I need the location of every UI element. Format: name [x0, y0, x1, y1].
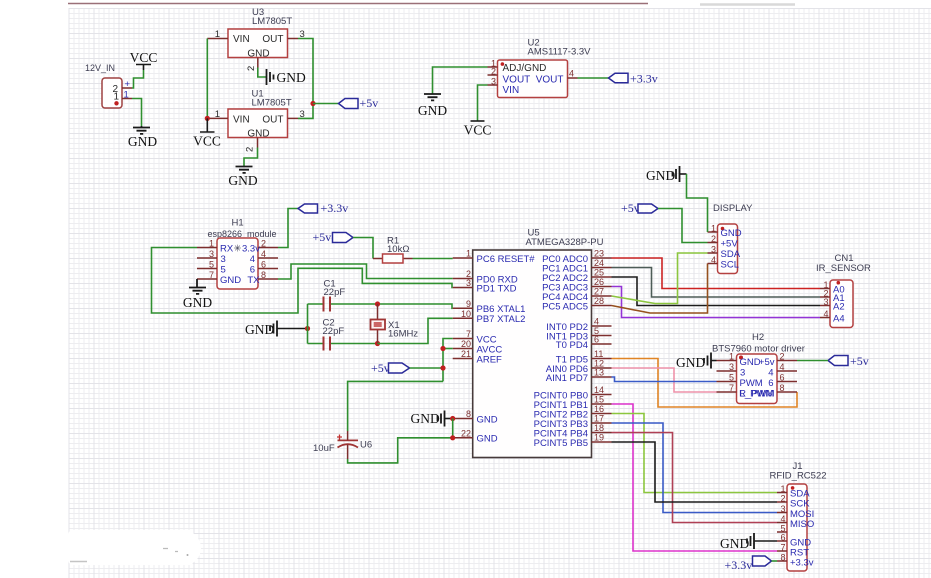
J1 pin 1 SDA [777, 484, 810, 499]
U5 pin 25 PC2 ADC2 [542, 268, 611, 284]
svg-text:+5v: +5v [621, 201, 640, 215]
DISPLAY pin 1 GND [708, 224, 742, 239]
svg-text:GND: GND [220, 275, 241, 286]
wire U5 pin23 to CN1 A0 [612, 258, 821, 289]
net flag +5v (DISPLAY) [621, 201, 658, 215]
svg-text:TX: TX [247, 275, 260, 286]
U5 pin 19 PCINT5 PB5 [534, 433, 612, 449]
svg-text:SCK: SCK [790, 498, 810, 509]
wire U5 pin25 to CN1 A2 [612, 277, 821, 306]
net flag +3.3v (H1) [298, 201, 348, 215]
junction +5v flag node [440, 365, 445, 370]
svg-text:4: 4 [780, 514, 785, 524]
U5 pin 27 PC4 ADC4 [542, 287, 611, 303]
wire U5 pin12 to H2 pin7 LPWM [612, 368, 717, 392]
svg-text:6: 6 [261, 260, 266, 270]
ground (DISPLAY) [646, 166, 680, 183]
wire U5 pin11 to H2 pin8 RPWM [612, 359, 798, 408]
svg-text:8: 8 [780, 383, 785, 393]
svg-text:4: 4 [711, 255, 716, 265]
ground (U3) [267, 69, 306, 85]
svg-text:2: 2 [711, 234, 716, 244]
svg-text:OUT: OUT [262, 34, 283, 45]
svg-text:LM7805T: LM7805T [252, 98, 292, 109]
white patch bottom left [69, 530, 202, 565]
svg-text:PWM: PWM [740, 378, 763, 389]
wire power rail to capacitor U6 [348, 381, 443, 431]
U1 pin 3 [288, 109, 305, 120]
U5 pin 6 T0 PD4 [556, 335, 612, 351]
U5 pin 2 PD0 RXD [453, 269, 518, 285]
svg-text:8: 8 [780, 553, 785, 563]
wire +3.3v to J1 pin8 [772, 560, 778, 562]
svg-text:PD1 TXD: PD1 TXD [477, 283, 517, 294]
U5 pin 24 PC1 ADC1 [542, 258, 611, 274]
svg-text:1: 1 [209, 239, 214, 249]
U5 pin 1 PC6 RESET# [453, 249, 536, 265]
CN1 pin 2 A1 [820, 289, 845, 304]
U3 pin 3 [288, 29, 305, 40]
U5 pin 13 AIN1 PD7 [546, 368, 612, 384]
svg-text:13: 13 [594, 368, 604, 378]
module H2 BTS7960 motor driver [712, 332, 805, 404]
H2 pin 2 +5v [759, 352, 797, 368]
ground (H2) [676, 353, 711, 371]
wire C1 to U5 pin9 XTAL1 [378, 304, 453, 308]
svg-text:+5V: +5V [721, 238, 739, 249]
svg-text:16: 16 [594, 404, 604, 414]
svg-text:3: 3 [740, 367, 745, 378]
wire U5 pin28 to DISPLAY SCL [612, 264, 708, 314]
svg-text:GND: GND [721, 228, 742, 239]
svg-text:9: 9 [466, 299, 471, 309]
U2 pin 2 [488, 67, 498, 77]
U5 pin 12 AIN0 PD6 [546, 359, 612, 375]
12V_IN pin 2 [112, 79, 132, 95]
svg-text:H1: H1 [232, 218, 244, 229]
svg-text:A4: A4 [833, 313, 845, 324]
svg-text:3: 3 [729, 362, 734, 372]
U5 pin 16 PCINT2 PB2 [534, 404, 612, 420]
U5 pin 5 INT1 PD3 [546, 326, 611, 342]
svg-text:ADJ/GND: ADJ/GND [503, 63, 547, 74]
J1 pin 4 MISO [777, 514, 814, 530]
U5 pin 23 PC0 ADC0 [542, 249, 611, 265]
svg-text:4: 4 [261, 249, 266, 259]
svg-text:AIN1 PD7: AIN1 PD7 [546, 373, 588, 384]
ground (12V input) [128, 126, 157, 149]
capacitor U6 10uF [313, 431, 372, 459]
wire U2 pin1 to ground [433, 67, 488, 94]
svg-text:20: 20 [461, 339, 471, 349]
U5 pin 18 PCINT4 PB4 [534, 423, 612, 439]
svg-text:17: 17 [594, 414, 604, 424]
wire H1 pin1 RX to U5 pin3 TXD [152, 248, 453, 314]
H1 pin 8 [247, 270, 278, 286]
svg-text:GND: GND [228, 173, 257, 188]
svg-text:19: 19 [594, 433, 604, 443]
H2 pin 5 PWM [717, 373, 763, 389]
svg-text:25: 25 [594, 268, 604, 278]
U5 pin 17 PCINT3 PB3 [534, 414, 612, 430]
H1 pin 7 [197, 270, 241, 286]
svg-text:GND: GND [676, 355, 705, 370]
U5 pin 4 INT0 PD2 [546, 317, 611, 333]
wire H2 pin2 to +5v [797, 360, 828, 362]
svg-text:2: 2 [245, 147, 256, 152]
svg-text:PB7 XTAL2: PB7 XTAL2 [477, 314, 526, 325]
U5 pin 22 GND [453, 428, 498, 444]
wire H1 pin2 to +3.3v flag [278, 209, 298, 248]
U1 pin 1 [207, 109, 228, 120]
U5 pin 7 VCC [453, 329, 497, 345]
svg-text:21: 21 [461, 349, 471, 359]
svg-text:+5v: +5v [313, 230, 332, 244]
svg-text:2: 2 [491, 67, 496, 77]
U5 pin 9 PB6 XTAL1 [453, 299, 526, 315]
svg-text:1: 1 [780, 484, 785, 494]
capacitor C1 22pF [308, 279, 378, 312]
svg-text:3: 3 [823, 297, 828, 307]
connector CN1 IR_SENSOR [816, 253, 871, 328]
svg-text:15: 15 [594, 395, 604, 405]
svg-text:+5v: +5v [850, 354, 869, 368]
svg-text:RFID_RC522: RFID_RC522 [770, 471, 827, 482]
svg-text:1: 1 [124, 90, 129, 101]
svg-text:GND: GND [128, 134, 157, 149]
wire cap rail [307, 304, 309, 344]
svg-text:✳: ✳ [234, 244, 242, 255]
svg-text:23: 23 [594, 249, 604, 259]
svg-text:6: 6 [780, 373, 785, 383]
wire U5 pin17 to J1 MOSI [612, 423, 778, 513]
svg-text:5: 5 [221, 265, 226, 276]
wire junction to +5v flag [313, 103, 339, 105]
wire U5 pin16 to J1 SDA [612, 414, 778, 493]
svg-text:OUT: OUT [262, 115, 283, 126]
junction +5v node [310, 101, 315, 106]
wire U5 pin26 to CN1 A4 [612, 287, 821, 318]
H2 pin 3 [717, 362, 746, 378]
svg-text:7: 7 [466, 329, 471, 339]
svg-text:+5v: +5v [759, 357, 775, 368]
wire +5v flag to power rail [410, 367, 444, 369]
junction GND pin8 [450, 416, 455, 421]
svg-text:12V_IN: 12V_IN [85, 63, 115, 73]
U5 pin 3 PD1 TXD [453, 278, 517, 294]
resistor R1 10k [373, 236, 413, 264]
wire U5 pin27 to DISPLAY SDA [612, 253, 708, 304]
svg-text:SCL: SCL [721, 259, 739, 270]
svg-text:6: 6 [780, 533, 785, 543]
svg-text:VIN: VIN [233, 34, 250, 45]
net flag +5v (U1 output) [339, 96, 379, 110]
svg-text:GND: GND [477, 414, 498, 425]
U2 pin 4 [568, 69, 578, 79]
svg-text:AREF: AREF [477, 354, 503, 365]
junction GND pin22 [450, 435, 455, 440]
svg-text:1: 1 [729, 352, 734, 362]
svg-text:4: 4 [768, 367, 773, 378]
net flag +5v (MCU power) [371, 361, 410, 375]
svg-text:R_PWM: R_PWM [739, 388, 774, 399]
svg-text:3: 3 [466, 278, 471, 288]
regulator U1 LM7805T [228, 89, 292, 140]
regulator U3 LM7805T [228, 7, 292, 60]
wire U2 pin3 to VCC [478, 85, 488, 121]
J1 pin 3 MOSI [777, 504, 814, 520]
crystal X1 16MHz [371, 304, 419, 344]
H2 pin 8 R_PWM [739, 383, 797, 399]
wire 12V_IN pin1 to GND [132, 99, 142, 127]
svg-text:4: 4 [823, 309, 828, 319]
H2 pin 7 L_PWM [717, 383, 774, 399]
svg-text:GND: GND [418, 103, 447, 118]
svg-text:4: 4 [594, 317, 599, 327]
DISPLAY pin 2 +5V [708, 234, 739, 249]
H1 pin 5 [197, 260, 226, 276]
U5 pin 26 PC3 ADC3 [542, 277, 611, 293]
J1 pin 8 +3.3v [777, 553, 814, 569]
H1 pin 1 [197, 239, 234, 255]
svg-text:22pF: 22pF [324, 287, 346, 298]
wire ground to U5 pin8 [445, 418, 453, 420]
H2 pin 1 GND [717, 352, 761, 368]
wire VCC to 12V_IN pin2 [132, 70, 144, 88]
wire U2 pin4 to +3.3v flag [578, 77, 609, 79]
H1 pin 6 [250, 260, 278, 276]
U5 pin 10 PB7 XTAL2 [453, 309, 526, 325]
svg-text:GND: GND [646, 168, 675, 183]
svg-text:1: 1 [466, 249, 471, 259]
svg-text:GND: GND [277, 70, 306, 85]
svg-text:GND: GND [720, 536, 749, 551]
J1 pin 5 [777, 524, 787, 534]
svg-text:7: 7 [209, 270, 214, 280]
connector J1 RFID_RC522 [770, 461, 827, 571]
H1 pin 4 [250, 249, 278, 265]
svg-text:T0 PD4: T0 PD4 [556, 340, 588, 351]
wire U3 pin2 to ground [258, 68, 267, 78]
H1 pin 2 [234, 239, 279, 255]
svg-text:GND: GND [183, 295, 212, 310]
wire ground to H2 pin1 [711, 360, 717, 362]
ground (U1) [228, 167, 257, 189]
svg-text:18: 18 [594, 423, 604, 433]
U5 pin 20 AVCC [453, 339, 503, 355]
svg-text:7: 7 [729, 383, 734, 393]
svg-text:U6: U6 [360, 440, 372, 451]
DISPLAY pin 3 SDA [708, 245, 741, 260]
connector DISPLAY [713, 203, 753, 274]
svg-text:10uF: 10uF [313, 443, 335, 454]
wire U5 pin18 to J1 MISO [612, 433, 778, 523]
svg-text:+3.3v: +3.3v [321, 201, 349, 215]
svg-text:AMS1117-3.3V: AMS1117-3.3V [528, 47, 592, 58]
svg-text:PCINT5 PB5: PCINT5 PB5 [534, 438, 588, 449]
net flag +3.3v (J1) [725, 556, 772, 572]
svg-text:6: 6 [594, 335, 599, 345]
H2 pin 4 [768, 362, 797, 378]
svg-text:1: 1 [215, 29, 220, 40]
wire power rail to U5 pin20 AVCC [443, 348, 453, 350]
wire U5 pin24 to CN1 A1 [612, 268, 821, 298]
svg-text:3: 3 [711, 245, 716, 255]
power flag VCC (12V input) [130, 50, 158, 70]
svg-text:10: 10 [461, 309, 471, 319]
wire U5 pin15 to J1 RST [612, 404, 778, 551]
svg-text:28: 28 [594, 296, 604, 306]
ground (J1) [720, 533, 754, 551]
svg-text:VCC: VCC [193, 134, 221, 149]
junction AVCC [440, 346, 445, 351]
module H1 esp8266_module [208, 218, 277, 290]
wire U6 to U5 pin22 GND [348, 438, 453, 463]
wire ground to J1 pin6 [754, 540, 777, 542]
svg-text:16MHz: 16MHz [388, 329, 418, 340]
junction X1 bottom [375, 341, 380, 346]
sheet top border line [68, 3, 648, 5]
wire U1 pin3 to +5v junction [298, 104, 313, 119]
connector J 12V_IN [85, 63, 122, 108]
svg-text:+: + [125, 79, 131, 90]
svg-text:26: 26 [594, 277, 604, 287]
svg-text:14: 14 [594, 385, 604, 395]
top smudge mark [700, 3, 795, 6]
svg-text:4: 4 [569, 69, 574, 79]
svg-text:3.3v: 3.3v [242, 244, 260, 255]
net flag +3.3v (U2 output) [609, 72, 658, 86]
svg-text:VOUT: VOUT [503, 74, 531, 85]
svg-text:1: 1 [113, 92, 119, 103]
U5 pin 14 PCINT0 PB0 [534, 385, 612, 401]
U2 pin 1 [488, 59, 498, 69]
ground (H1 pin7) [183, 279, 212, 310]
svg-text:VIN: VIN [233, 115, 250, 126]
svg-text:5: 5 [209, 260, 214, 270]
U2 pin 3 [488, 77, 498, 87]
svg-text:5: 5 [729, 373, 734, 383]
svg-text:1: 1 [215, 109, 220, 120]
svg-text:2: 2 [780, 352, 785, 362]
svg-text:VOUT: VOUT [536, 74, 564, 85]
U3 pin 1 [207, 29, 228, 40]
svg-text:24: 24 [594, 258, 604, 268]
svg-text:BTS7960 motor driver: BTS7960 motor driver [712, 344, 805, 355]
U5 pin 15 PCINT1 PB1 [534, 395, 612, 411]
svg-text:2: 2 [261, 239, 266, 249]
net flag +5v (R1 pullup) [313, 230, 354, 244]
J1 pin 7 RST [777, 543, 809, 559]
CN1 pin 1 A0 [820, 280, 845, 295]
svg-text:7: 7 [780, 543, 785, 553]
wire U5 pin19 to J1 SCK [612, 442, 778, 502]
wire +5v to DISPLAY pin2 [658, 209, 708, 243]
U5 pin 21 AREF [453, 349, 502, 365]
wire U5 pin13 to H2 pin5 PWM [612, 377, 717, 382]
ground (MCU pin8) [411, 411, 445, 427]
CN1 pin 4 A4 [820, 309, 845, 324]
wire U3 pin1 down to VCC rail [206, 39, 208, 119]
svg-text:6: 6 [250, 265, 255, 276]
svg-text:+3.3v: +3.3v [630, 72, 658, 86]
svg-text:LM7805T: LM7805T [252, 16, 292, 27]
svg-text:22pF: 22pF [323, 326, 345, 337]
junction X1 top [375, 301, 380, 306]
svg-text:VIN: VIN [503, 85, 520, 96]
svg-text:DISPLAY: DISPLAY [713, 203, 753, 214]
wire U1 pin2 to ground [244, 148, 258, 167]
U5 pin 11 T1 PD5 [556, 349, 612, 365]
J1 pin 2 SCK [777, 494, 810, 510]
wire ground to DISPLAY pin1 [680, 174, 708, 232]
svg-text:MISO: MISO [790, 519, 814, 530]
H1 pin 3 [197, 249, 226, 265]
svg-text:ATMEGA328P-PU: ATMEGA328P-PU [526, 237, 604, 248]
svg-text:+3.3v: +3.3v [725, 558, 753, 572]
svg-text:8: 8 [466, 409, 471, 419]
svg-text:GND: GND [740, 357, 761, 368]
svg-text:+5v: +5v [371, 361, 390, 375]
svg-text:8: 8 [261, 270, 266, 280]
DISPLAY pin 4 SCL [708, 255, 739, 270]
U3 pin 2 [246, 58, 258, 72]
wire C2/X1 to U5 pin10 XTAL2 [378, 318, 453, 343]
svg-text:11: 11 [594, 349, 603, 359]
wire H1 pin8 TX to U5 pin2 RXD [278, 264, 453, 279]
svg-text:GND: GND [247, 129, 269, 140]
wire U3 pin3 to +5v rail [298, 39, 313, 104]
svg-text:A2: A2 [833, 301, 845, 312]
ground (U2) [418, 94, 447, 118]
power flag VCC (U1) [193, 118, 221, 148]
U5 pin 28 PC5 ADC5 [542, 296, 611, 312]
svg-text:3: 3 [780, 504, 785, 514]
junction cap rail [305, 326, 310, 331]
net flag +5v (H2) [828, 354, 869, 368]
svg-text:4: 4 [250, 254, 255, 265]
svg-text:1: 1 [711, 224, 716, 234]
wire +5v flag to R1 [353, 238, 373, 259]
wire ground to cap rail [277, 328, 308, 330]
svg-text:3: 3 [209, 249, 214, 259]
svg-text:3: 3 [491, 77, 496, 87]
svg-text:PC6 RESET#: PC6 RESET# [477, 254, 536, 265]
wire R1 to U5 pin1 RESET [413, 258, 453, 260]
H2 pin 6 [768, 373, 797, 389]
12V_IN pin 1 [113, 90, 132, 106]
svg-text:IR_SENSOR: IR_SENSOR [816, 263, 871, 274]
svg-text:RX: RX [220, 244, 234, 255]
power flag VCC (U2 input) [464, 121, 492, 138]
CN1 pin 3 A2 [820, 297, 845, 312]
svg-text:6: 6 [768, 378, 773, 389]
junction VCC at U1 pin1 [205, 116, 210, 121]
MCU U5 ATMEGA328P-PU [473, 228, 604, 458]
svg-text:2: 2 [780, 494, 785, 504]
U5 pin 8 GND [453, 409, 498, 425]
svg-text:GND: GND [411, 411, 440, 426]
svg-text:SDA: SDA [721, 249, 741, 260]
wire power rail to U5 pin7 VCC [443, 339, 453, 382]
capacitor C2 22pF [308, 318, 378, 351]
svg-text:H2: H2 [752, 332, 764, 343]
svg-text:GND: GND [477, 434, 498, 445]
svg-text:VCC: VCC [464, 123, 492, 138]
svg-text:27: 27 [594, 287, 604, 297]
U1 pin 2 [245, 138, 258, 153]
svg-text:22: 22 [461, 428, 471, 438]
